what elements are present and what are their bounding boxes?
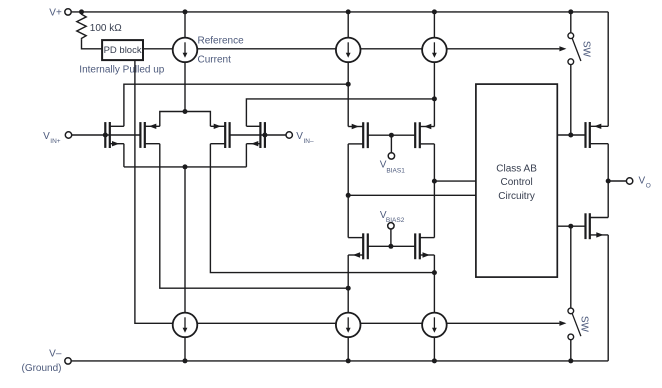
svg-text:Current: Current [198, 55, 232, 66]
wire bias I6 to SW2 with arrow [447, 321, 567, 326]
terminal VBIAS1 [388, 153, 394, 159]
current source I5 [336, 313, 361, 338]
label SW (top) [581, 41, 592, 58]
junction top rail col2 [346, 9, 351, 14]
svg-text:V: V [43, 131, 50, 142]
junction output node [606, 179, 611, 184]
wire bias I5 to I6 [361, 322, 423, 324]
wire Q1 drain to col2 [124, 84, 348, 126]
wire Q2 drain to col2 bottom [160, 144, 348, 289]
wire SW1 to output PMOS gate [570, 65, 572, 136]
svg-text:BIAS1: BIAS1 [386, 167, 405, 174]
wire top rail V+ [71, 11, 608, 13]
junction Q1 drain col2 [346, 82, 351, 87]
svg-text:V–: V– [49, 348, 62, 359]
svg-text:Control: Control [500, 177, 532, 188]
wire Q2 source to P tail [160, 112, 185, 127]
wire NMOS gate to SW2 [570, 226, 572, 308]
label SW (bottom) [578, 316, 589, 333]
wire VBIAS2 gate line [368, 245, 415, 247]
svg-text:100 kΩ: 100 kΩ [90, 23, 122, 34]
switch SW2 [568, 308, 581, 340]
transistor Q3 (P input right) [210, 122, 229, 148]
junction VIN+ gate Q1 [103, 133, 108, 138]
wire Q3 drain to col3 bottom [210, 144, 434, 273]
switch SW1 [568, 33, 581, 65]
terminal V- [65, 358, 71, 364]
junction I5 V- rail [346, 358, 351, 363]
terminal VO [626, 178, 632, 184]
wire I6 to V- rail [433, 337, 435, 361]
wire PD block to reference current source [143, 48, 173, 50]
svg-text:V: V [639, 175, 646, 186]
terminal VIN- [286, 132, 292, 138]
junction VBIAS2 gate [388, 244, 393, 249]
wire I2 to V+ rail [347, 12, 349, 38]
svg-text:IN+: IN+ [50, 138, 61, 145]
wire Q6 drain down col3 [433, 144, 435, 238]
terminal VBIAS2 [388, 223, 394, 229]
wire resistor to PD block [82, 40, 103, 49]
current source I1 (reference) [173, 38, 198, 63]
svg-text:Circuitry: Circuitry [498, 191, 535, 202]
wire VBIAS1 gate line [368, 134, 415, 136]
wire Q8 source to I6 [433, 255, 435, 313]
resistor R1 100 kΩ [77, 12, 86, 40]
junction VBIAS1 gate [389, 133, 394, 138]
wire I2 to Q5 source [347, 62, 349, 126]
junction col2 to Class AB [346, 193, 351, 198]
svg-text:Reference: Reference [198, 36, 245, 47]
current source I3 [422, 38, 447, 63]
junction top rail col3 [432, 9, 437, 14]
wire top rail to SW1 [570, 12, 572, 33]
wire col2 to Class AB box [348, 194, 476, 196]
wire PD block shutdown line [135, 60, 173, 323]
wire output node to terminal [608, 180, 626, 182]
svg-text:O: O [646, 183, 651, 190]
wire col3 to Class AB box [434, 180, 476, 182]
terminal V+ [65, 9, 71, 15]
junction top rail resistor [79, 9, 84, 14]
junction I4 V- rail [183, 358, 188, 363]
junction top rail col1 [183, 9, 188, 14]
wire ref current source to V+ rail [184, 12, 186, 38]
wire VBIAS1 stub [390, 135, 392, 153]
transistor Q7 (NMOS cascode left) [348, 233, 368, 259]
wire V+ rail right drop [607, 12, 609, 126]
wire N tail line [124, 166, 246, 168]
transistor Q9 (output PMOS) [586, 122, 609, 148]
wire I3 to Q6 source [433, 62, 435, 126]
transistor Q10 (output NMOS) [586, 213, 609, 239]
current source I6 [422, 313, 447, 338]
wire Q7 source to I5 [347, 255, 349, 313]
svg-text:Class AB: Class AB [496, 164, 537, 175]
wire SW2 to V- rail [570, 340, 572, 361]
svg-text:IN–: IN– [304, 138, 315, 145]
wire bias I4 to I5 [197, 322, 336, 324]
junction top rail SW1 [568, 9, 573, 14]
wire I5 to V- rail [347, 337, 349, 361]
svg-text:V: V [296, 131, 303, 142]
terminal VIN+ [65, 132, 71, 138]
junction Q3 drain col3b [432, 270, 437, 275]
junction NMOS gate SW line [568, 224, 573, 229]
wire Q10 source to V- rail [607, 235, 609, 361]
transistor Q1 (N input left) [105, 122, 124, 148]
wire Q4 source down to N tail [245, 144, 247, 167]
transistor Q2 (P input left) [140, 122, 159, 148]
junction N tail node [183, 164, 188, 169]
wire bias I2 to I3 [361, 48, 423, 50]
svg-text:(Ground): (Ground) [21, 363, 61, 374]
junction P tail node [183, 109, 188, 114]
junction SW2 V- rail [568, 358, 573, 363]
transistor Q5 (PMOS cascode left) [348, 122, 368, 148]
current source I4 [173, 313, 198, 338]
svg-text:PD block: PD block [104, 45, 142, 56]
wire Q4 drain to col3 [246, 99, 434, 126]
svg-text:SW: SW [581, 41, 592, 58]
Class AB control box [476, 84, 557, 277]
wire I3 to V+ rail [433, 12, 435, 38]
svg-text:SW: SW [578, 316, 589, 333]
svg-text:BIAS2: BIAS2 [386, 217, 405, 224]
wire Q9 drain to output node [607, 144, 609, 218]
wire VIN+ to gates [72, 134, 141, 136]
wire N tail to bottom current source I4 [184, 167, 186, 313]
wire Q1 source down to N tail [123, 144, 125, 167]
junction Q4 drain col3 [432, 96, 437, 101]
transistor Q4 (N input right) [246, 122, 265, 148]
wire bias I1 to I2 [197, 48, 336, 50]
wire bottom rail [71, 360, 608, 362]
svg-text:Internally Pulled up: Internally Pulled up [79, 65, 164, 76]
wire Q5 drain down col2 [347, 144, 349, 238]
wire VIN- to gates [230, 134, 286, 136]
wire Class AB to NMOS gate [557, 225, 585, 227]
PD block box [102, 40, 143, 60]
junction I6 V- rail [432, 358, 437, 363]
transistor Q6 (PMOS cascode right) [415, 122, 434, 148]
junction Q2 drain col2b [346, 286, 351, 291]
junction col3 to Class AB [432, 179, 437, 184]
wire Q3 source to P tail [185, 112, 210, 127]
junction VIN- gate Q4 [262, 133, 267, 138]
wire I4 to V- rail [184, 337, 186, 361]
svg-text:V+: V+ [49, 7, 62, 18]
wire ref source to P-pair tail [184, 62, 186, 111]
wire VBIAS2 stub [390, 229, 392, 246]
transistor Q8 (NMOS cascode right) [415, 233, 434, 259]
wire Class AB to PMOS gate [557, 134, 585, 136]
wire bias I3 to switch SW1 with arrow [447, 46, 567, 51]
current source I2 [336, 38, 361, 63]
junction PMOS gate SW line [568, 133, 573, 138]
